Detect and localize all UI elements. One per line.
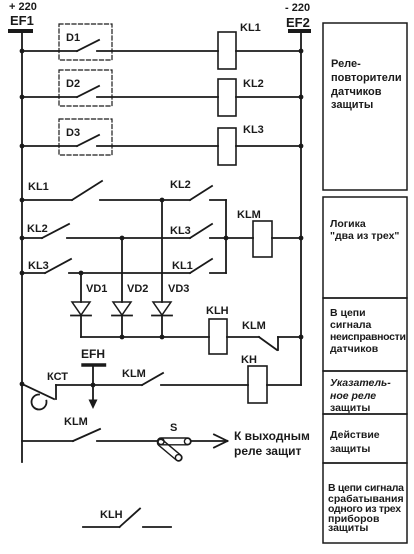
contact D3 (dashed box) xyxy=(22,119,218,155)
svg-text:KLM: KLM xyxy=(242,320,266,332)
annotation box 5: Действие защиты xyxy=(323,414,407,463)
svg-text:ное реле: ное реле xyxy=(330,390,376,402)
contact KLM (output row) xyxy=(22,416,158,441)
relay coil KLH xyxy=(206,305,259,354)
svg-text:KLH: KLH xyxy=(100,509,123,521)
svg-text:S: S xyxy=(170,422,177,434)
wire VD2 tap xyxy=(121,238,123,302)
annotation box 1: Реле-повторители датчиков защиты xyxy=(323,23,407,190)
svg-text:KL1: KL1 xyxy=(240,22,261,34)
node bus EF2 / KL3 xyxy=(299,144,304,149)
annotation box 3: В цепи сигнала неисправности датчиков xyxy=(323,298,407,371)
svg-text:датчиков: датчиков xyxy=(331,86,382,98)
annotation box 6: В цепи сигнала срабатывания одного из трех приборов защиты xyxy=(323,463,407,543)
svg-text:KL1: KL1 xyxy=(172,260,193,272)
svg-text:В цепи: В цепи xyxy=(330,307,366,319)
wire row B middle xyxy=(67,237,190,239)
svg-text:повторители: повторители xyxy=(331,72,402,84)
svg-text:Реле-: Реле- xyxy=(331,58,361,70)
svg-text:D3: D3 xyxy=(66,127,80,139)
svg-text:Указатель-: Указатель- xyxy=(330,377,391,389)
bus EF2 (right -220 rail) xyxy=(300,33,302,385)
bus EF1 (left +220 rail) xyxy=(21,33,23,462)
node row A / VD3 tap xyxy=(160,198,165,203)
svg-text:KL2: KL2 xyxy=(170,179,191,191)
node bracket / KLM row xyxy=(224,236,229,241)
svg-text:реле защит: реле защит xyxy=(234,444,301,458)
node bus EF1 / D2 xyxy=(20,95,25,100)
contact KL3 (row B right) xyxy=(170,224,226,238)
wire row C middle xyxy=(69,272,190,274)
node diode bus / VD2 xyxy=(120,335,125,340)
node bus EF2 / KL2 xyxy=(299,95,304,100)
svg-text:защиты: защиты xyxy=(330,402,370,414)
svg-text:- 220: - 220 xyxy=(285,2,310,14)
svg-text:VD3: VD3 xyxy=(168,283,189,295)
contact KL1 (row A left) xyxy=(22,181,102,200)
svg-text:"два из трех": "два из трех" xyxy=(330,230,399,242)
contact KL2 (row A right) xyxy=(170,179,226,200)
node bus EF1 / D1 xyxy=(20,49,25,54)
wire KCT to EFH xyxy=(56,384,93,386)
contact D2 (dashed box) xyxy=(22,70,218,106)
node row C / VD1 tap xyxy=(79,271,84,276)
contact KL3 (row C left) xyxy=(22,259,71,273)
node bus EF2 / KLM NC xyxy=(299,335,304,340)
svg-text:KL3: KL3 xyxy=(170,225,191,237)
svg-text:KLH: KLH xyxy=(206,305,229,317)
node diode bus / VD3 xyxy=(160,335,165,340)
contact KL1 (row C right) xyxy=(172,259,226,273)
node bus EF1 / row C xyxy=(20,271,25,276)
svg-text:К выходным: К выходным xyxy=(234,429,310,443)
wire VD1 tap xyxy=(80,273,82,302)
wire row A middle xyxy=(100,199,190,201)
relay coil KL3 xyxy=(218,124,301,165)
annotation box 2: Логика два из трех xyxy=(323,197,407,298)
svg-text:Логика: Логика xyxy=(330,218,366,230)
terminal EF2 -220 xyxy=(285,2,310,31)
node EFH / row xyxy=(91,383,96,388)
node bus EF2 / KL1 xyxy=(299,49,304,54)
svg-text:KL3: KL3 xyxy=(28,260,49,272)
node bus EF1 / row B xyxy=(20,236,25,241)
svg-text:D1: D1 xyxy=(66,32,80,44)
svg-text:EFH: EFH xyxy=(81,347,105,361)
contact KLM (to KH) xyxy=(93,368,248,385)
node bus EF1 / row A xyxy=(20,198,25,203)
relay coil KL2 xyxy=(218,78,301,116)
contact KLM (normally closed) xyxy=(242,320,301,350)
node bus EF1 / KCT row xyxy=(20,382,25,387)
svg-text:KLM: KLM xyxy=(237,209,261,221)
diode VD3 xyxy=(152,283,189,337)
relay coil KLM xyxy=(237,209,301,257)
annotation box 4: Указательное реле защиты xyxy=(323,371,407,414)
diode VD2 xyxy=(112,283,148,337)
svg-text:KL1: KL1 xyxy=(28,181,49,193)
svg-text:KH: KH xyxy=(241,354,257,366)
svg-text:датчиков: датчиков xyxy=(330,343,379,355)
wire bracket to KLM coil xyxy=(226,237,253,239)
wire collector bracket (two-of-three) xyxy=(225,200,227,273)
relay coil KH xyxy=(241,354,301,403)
contact KLH (bottom signal circuit) xyxy=(83,509,171,528)
svg-text:неисправности: неисправности xyxy=(330,331,406,343)
arrow to output relays xyxy=(191,429,310,458)
socket KCT xyxy=(22,371,68,410)
svg-text:KL2: KL2 xyxy=(27,223,48,235)
svg-text:сигнала: сигнала xyxy=(330,319,372,331)
svg-text:KLM: KLM xyxy=(122,368,146,380)
svg-text:KL2: KL2 xyxy=(243,78,264,90)
svg-text:EF1: EF1 xyxy=(10,13,34,28)
switch S xyxy=(156,422,191,462)
svg-text:защиты: защиты xyxy=(328,522,368,534)
svg-text:KLM: KLM xyxy=(64,416,88,428)
wire diode bus xyxy=(81,336,209,338)
node bus EF1 / D3 xyxy=(20,144,25,149)
svg-text:VD2: VD2 xyxy=(127,283,148,295)
wire VD3 tap xyxy=(161,200,163,302)
node row B / VD2 tap xyxy=(120,236,125,241)
svg-text:EF2: EF2 xyxy=(286,15,310,30)
svg-text:защиты: защиты xyxy=(330,443,370,455)
terminal EF1 +220 xyxy=(9,1,37,31)
relay coil KL1 xyxy=(218,22,301,69)
diode VD1 xyxy=(71,283,107,337)
svg-text:VD1: VD1 xyxy=(86,283,107,295)
node bus EF2 / KLM xyxy=(299,236,304,241)
terminal EFH xyxy=(81,347,105,409)
contact D1 (dashed box) xyxy=(22,24,218,60)
svg-text:Действие: Действие xyxy=(330,429,380,441)
contact KL2 (row B left) xyxy=(22,223,69,238)
svg-text:защиты: защиты xyxy=(331,99,373,111)
svg-text:D2: D2 xyxy=(66,78,80,90)
svg-text:KL3: KL3 xyxy=(243,124,264,136)
svg-text:+ 220: + 220 xyxy=(9,1,37,13)
svg-text:КСТ: КСТ xyxy=(47,371,68,383)
